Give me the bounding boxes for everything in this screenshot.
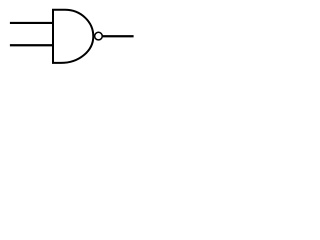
wire input B (10, 44, 54, 46)
wire input A (10, 22, 54, 24)
nand gate U1 body (53, 10, 93, 63)
wire output (103, 35, 134, 37)
nand gate U1 inversion bubble (95, 32, 103, 40)
